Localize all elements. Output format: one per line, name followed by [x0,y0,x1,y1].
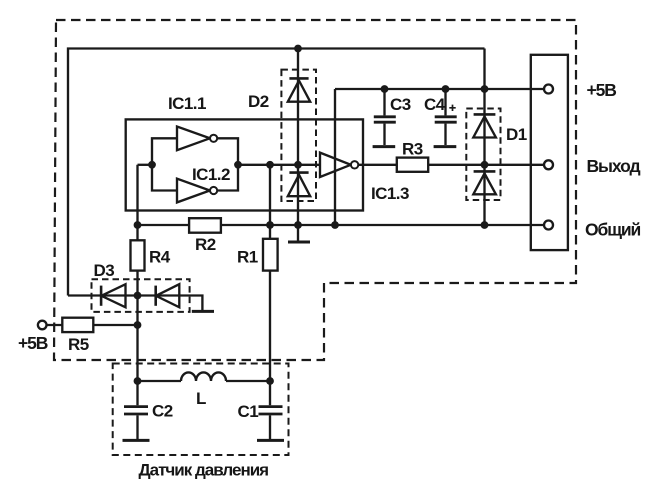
ground bar below D2 [288,241,310,244]
diode D3 right [154,286,157,306]
diode D3 left [100,286,103,306]
svg-text:R4: R4 [149,248,171,267]
svg-text:L: L [196,389,206,408]
svg-text:+5В: +5В [587,80,617,100]
diode D1 lower [474,170,496,173]
svg-text:C3: C3 [390,95,411,114]
junction dot C4 rail [442,85,450,93]
ground bar below C1 [257,439,284,442]
terminal pin +5V left [38,321,47,330]
svg-text:+5В: +5В [18,333,48,353]
op-amp inverter IC1.2 [177,179,210,203]
wire +5V rail [335,88,544,90]
svg-text:Датчик давления: Датчик давления [139,461,269,480]
wire IC1.3 output to connector [359,164,545,166]
svg-text:D3: D3 [94,261,115,280]
wire inverter input bracket [152,138,177,190]
svg-text:C4: C4 [424,95,446,114]
svg-text:IC1.3: IC1.3 [371,184,409,203]
junction dot R5 node [134,321,142,329]
svg-text:R5: R5 [68,335,89,354]
terminal pin common [544,221,553,230]
IC block box [126,119,363,210]
ground bar below C4 [434,145,457,148]
connector block [531,55,568,250]
wire inverter output bracket [217,138,238,190]
svg-text:R1: R1 [237,248,258,267]
capacitor C4 polarized [444,89,446,115]
diode D2 lower [289,171,308,174]
svg-text:R2: R2 [195,235,216,254]
diode D2 upper [289,77,308,80]
junction dot common IC power [331,221,339,229]
svg-text:C2: C2 [152,402,173,421]
capacitor C3 [383,89,385,115]
junction dot inverter input node [148,161,156,169]
wire D3 horizontal run [68,296,202,311]
outer dashed device boundary [54,20,576,360]
op-amp inverter IC1.1 [177,127,210,151]
wire top rail with left drop [68,49,485,296]
junction dot top rail D2 [294,45,302,53]
terminal pin +5V [544,85,553,94]
junction dot common left [134,221,142,229]
svg-text:C1: C1 [238,402,259,421]
diode D1 upper [474,113,496,116]
junction dot sensor right [266,377,274,385]
diode box D2 dashed [281,70,316,201]
wire sensor left segment [138,380,182,382]
junction dot D2 output line [294,161,302,169]
junction dot D1 rail [481,85,489,93]
resistor R4 [131,240,145,270]
ground bar below C3 [373,145,396,148]
wire D2 vertical [297,49,299,226]
wire D2 ground stub [297,225,299,241]
wire common line [138,224,545,226]
diode box D3 dashed [92,279,190,312]
wire R5 to node [47,324,138,326]
sensor dashed box [113,364,289,456]
junction dot C3 rail [381,85,389,93]
resistor R3 [397,158,428,172]
plus sign of C4 [449,105,455,111]
svg-text:Общий: Общий [585,220,641,240]
diode box D1 dashed [466,109,500,201]
wire sensor right segment [226,380,270,382]
junction dot D3 center [134,292,142,300]
wire IC power vertical [334,89,336,225]
wire input node to left vertical [138,164,153,166]
svg-text:IC1.1: IC1.1 [168,94,206,113]
ground bar after D3 [192,310,214,313]
terminal pin output [544,160,553,169]
junction dot R1 output line [266,161,274,169]
ground bar below C2 [123,439,150,442]
resistor R5 [62,318,93,332]
wire inverter output line to IC1.3 input [238,164,320,166]
svg-text:D1: D1 [506,125,527,144]
junction dot sensor left [134,377,142,385]
wire left vertical through R4 D3 R5 to sensor [136,165,138,405]
junction dot common D1 [481,221,489,229]
svg-text:R3: R3 [402,140,423,159]
inductor L [181,372,226,381]
junction dot common R1 [266,221,274,229]
resistor R2 [189,218,221,233]
junction dot inverter output node [234,161,242,169]
wire D1 vertical [483,49,485,226]
svg-text:IC1.2: IC1.2 [192,165,230,184]
junction dot common D2 [294,221,302,229]
svg-text:D2: D2 [248,92,269,111]
op-amp inverter IC1.3 [320,153,351,177]
svg-text:Выход: Выход [587,156,641,176]
capacitor C2 [124,405,148,408]
wire R1 vertical from output line to sensor [269,165,271,405]
resistor R1 [263,239,278,271]
capacitor C1 [259,405,283,408]
junction dot D1 output line [481,161,489,169]
